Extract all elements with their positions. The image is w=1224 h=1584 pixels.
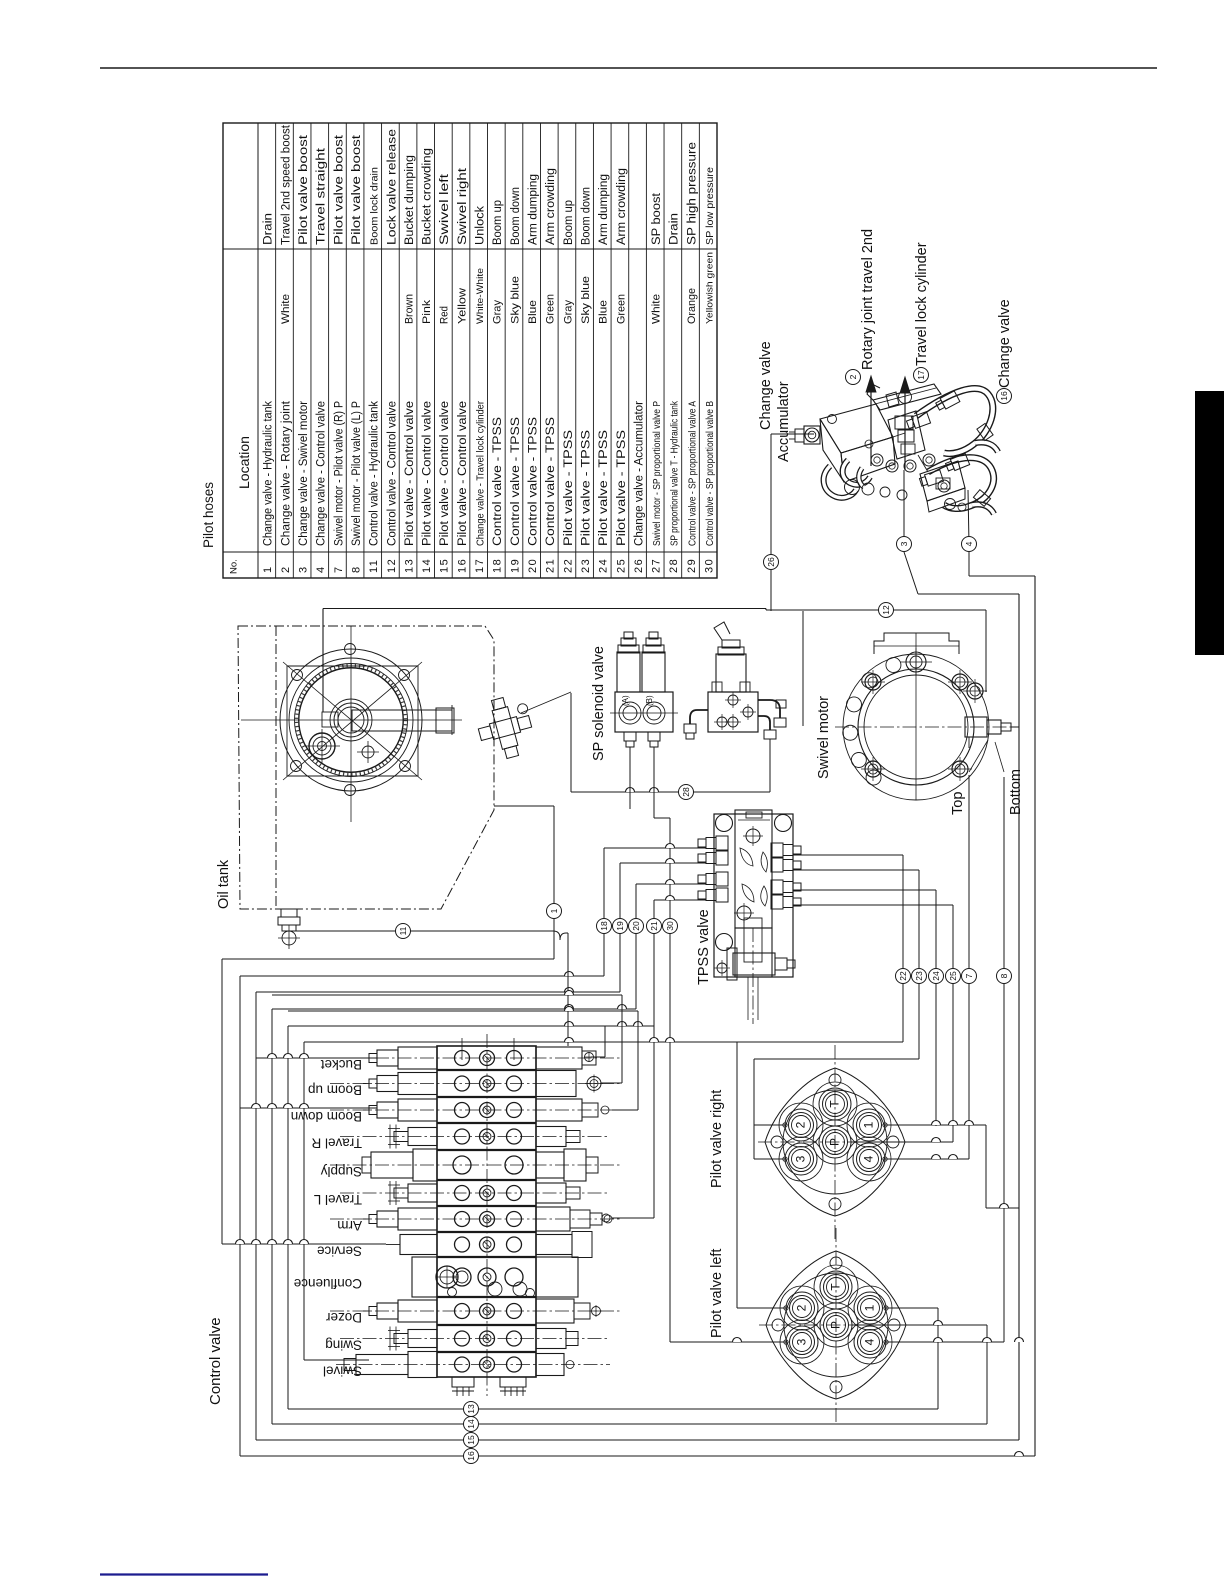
pilot valve left [759,1228,913,1422]
svg-text:Pilot valve - Control valve: Pilot valve - Control valve [455,401,469,546]
hose: pilot right port2 [754,1059,919,1159]
svg-text:Pilot valve left: Pilot valve left [709,1249,725,1338]
svg-text:Red: Red [439,306,451,324]
svg-text:Control valve - TPSS: Control valve - TPSS [526,417,540,546]
svg-text:Pilot valve boost: Pilot valve boost [331,134,345,245]
hose: pilot left port4 [886,1338,1024,1343]
svg-text:Lock valve release: Lock valve release [384,129,398,245]
svg-text:Pink: Pink [421,300,433,324]
svg-text:Orange: Orange [686,288,698,324]
svg-text:3: 3 [794,1155,808,1162]
svg-text:Travel L: Travel L [313,1192,362,1207]
label: Pilot hoses [201,482,216,548]
svg-text:White: White [651,294,663,324]
svg-text:Arm crowding: Arm crowding [614,168,628,245]
svg-text:11: 11 [368,559,380,573]
svg-text:19: 19 [509,558,521,573]
svg-text:Supply: Supply [320,1164,362,1179]
label: SP solenoid valve [591,646,607,761]
svg-text:Pilot valve - TPSS: Pilot valve - TPSS [614,430,628,546]
svg-text:7: 7 [964,973,974,978]
svg-text:Bucket: Bucket [320,1057,362,1072]
svg-text:Change valve: Change valve [997,299,1013,388]
svg-text:Oil tank: Oil tank [216,859,232,909]
svg-text:8: 8 [999,973,1009,978]
label: Rotary joint travel 2nd [846,229,877,385]
svg-text:SP solenoid valve: SP solenoid valve [591,646,607,761]
svg-text:Control valve - TPSS: Control valve - TPSS [543,417,557,546]
svg-text:Arm dumping: Arm dumping [596,174,610,245]
svg-text:1: 1 [549,908,559,913]
svg-text:13: 13 [403,558,415,573]
svg-text:1: 1 [862,1121,876,1128]
svg-text:Top: Top [950,792,966,815]
svg-text:18: 18 [599,921,609,931]
hose: frame line above pilot right [304,1038,903,1309]
label: Top [950,792,966,815]
svg-text:Swing: Swing [325,1338,362,1353]
hose: TPSS left 21 [288,896,706,1027]
svg-text:Rotary joint travel 2nd: Rotary joint travel 2nd [860,229,876,370]
svg-text:Control valve - Control valve: Control valve - Control valve [384,401,398,546]
svg-text:Arm: Arm [337,1218,362,1233]
svg-text:2: 2 [280,567,292,573]
svg-text:Pilot valve - Control valve: Pilot valve - Control valve [420,401,434,546]
svg-text:Sky blue: Sky blue [580,276,592,324]
label: TPSS valve [696,909,712,985]
svg-text:Boom up: Boom up [490,200,504,245]
svg-text:Drain: Drain [667,213,681,245]
hose: TPSS right 24 [793,890,944,1126]
header rule [100,67,1157,69]
svg-text:SP high pressure: SP high pressure [684,142,698,245]
svg-text:Boom lock drain: Boom lock drain [370,167,381,245]
hose: change valve - swivel motor (3) [879,603,987,693]
hose: pilot left P [852,1321,987,1425]
svg-text:SP boost: SP boost [649,192,663,245]
hose: change valve - accumulator (26) [764,434,815,611]
svg-text:28: 28 [681,787,691,797]
svg-text:21: 21 [545,558,557,573]
svg-text:Pilot valve - Control valve: Pilot valve - Control valve [402,401,416,546]
svg-text:8: 8 [350,567,362,573]
svg-text:22: 22 [562,558,574,573]
svg-text:27: 27 [651,558,663,573]
svg-text:17: 17 [916,370,926,380]
label: Travel lock cylinder [914,242,931,382]
svg-text:Change valve: Change valve [758,341,774,430]
svg-text:15: 15 [466,1435,476,1445]
svg-text:Swivel motor - SP proportional: Swivel motor - SP proportional valve P [652,401,663,546]
bottom frame hose 1409 [288,1402,938,1417]
svg-text:Change valve - Hydraulic tank: Change valve - Hydraulic tank [261,400,275,546]
svg-text:11: 11 [398,926,408,935]
svg-text:14: 14 [466,1419,476,1429]
svg-text:Unlock: Unlock [473,205,487,245]
label: Oil tank [216,859,232,909]
svg-text:Change valve - Rotary joint: Change valve - Rotary joint [278,400,292,546]
svg-text:Yellow: Yellow [456,287,468,324]
svg-text:4: 4 [315,567,327,573]
svg-text:Swivel left: Swivel left [437,173,451,245]
cross fitting near tank [472,692,571,764]
pilot valve right [758,1045,912,1239]
svg-text:Boom up: Boom up [308,1083,362,1098]
svg-text:Control valve: Control valve [207,1317,224,1405]
svg-text:Service: Service [317,1244,362,1259]
hose: boom up right U [272,991,622,1084]
svg-text:Confluence: Confluence [294,1276,362,1291]
svg-text:26: 26 [633,558,645,573]
svg-text:Accumulator: Accumulator [776,381,792,462]
hose into control valve: bucket line [256,1054,377,1059]
hose: SP proportional T drain (28) [505,693,770,800]
svg-text:Arm dumping: Arm dumping [526,174,540,245]
svg-text:13: 13 [466,1404,476,1414]
label: Change valve (right) [997,299,1014,403]
svg-text:20: 20 [631,921,641,931]
wire: frame trunk [323,576,1035,1456]
svg-text:26: 26 [766,557,776,567]
svg-text:(B): (B) [645,695,654,706]
svg-text:White-White: White-White [475,268,486,324]
svg-text:Boom down: Boom down [508,187,522,245]
svg-text:Gray: Gray [562,300,574,324]
svg-text:16: 16 [999,391,1009,401]
hose: tank drain line (11) [296,924,568,1047]
svg-text:Pilot valve boost: Pilot valve boost [296,134,310,245]
hose: TPSS left 20 [272,880,706,1010]
svg-text:14: 14 [421,558,433,573]
svg-text:12: 12 [386,558,398,573]
svg-text:Boom down: Boom down [291,1109,362,1124]
hose: SP proportional P (27) [786,611,803,726]
svg-text:1: 1 [863,1304,877,1311]
svg-text:Change valve - Accumulator: Change valve - Accumulator [631,401,645,546]
SP solenoid valve [610,632,678,747]
svg-text:Control valve - TPSS: Control valve - TPSS [490,417,504,546]
swivel motor [835,633,1019,800]
label: Control valve [207,1317,224,1405]
table: pilot hoses list [223,123,717,578]
svg-text:25: 25 [948,971,958,981]
svg-text:Travel R: Travel R [311,1136,362,1151]
svg-text:Arm crowding: Arm crowding [543,168,557,245]
hose: travel lock (17) drop [897,470,1020,594]
svg-text:19: 19 [615,921,625,931]
label: Swivel motor [816,696,832,779]
svg-text:16: 16 [466,1451,476,1461]
svg-text:Brown: Brown [403,294,415,324]
svg-text:28: 28 [668,558,680,573]
SP proportional valve [684,622,786,739]
svg-text:4: 4 [862,1155,876,1162]
svg-text:No.: No. [229,559,240,574]
swivel motor leaders to Top/Bottom [969,740,1004,772]
svg-text:Pilot valve - TPSS: Pilot valve - TPSS [596,430,610,546]
svg-text:Sky blue: Sky blue [509,276,521,324]
hose: solenoid B line (30) [654,747,678,1342]
svg-text:29: 29 [686,558,698,573]
svg-text:Control valve - SP proportiona: Control valve - SP proportional valve B [705,401,716,546]
svg-text:3: 3 [298,567,310,573]
svg-text:Swivel: Swivel [323,1364,362,1379]
bottom frame hose 1424 [272,1417,987,1432]
hose: pilot left port2 [737,1307,786,1309]
control valve section labels [291,1057,362,1379]
control valve left/right attachments [330,1047,620,1378]
svg-text:18: 18 [492,558,504,573]
hose: swivel Top line (7) [962,775,977,1159]
svg-text:Boom up: Boom up [561,200,575,245]
hose: pilot right port4 [885,1155,969,1159]
svg-text:15: 15 [439,558,451,573]
svg-text:Change valve - Swivel motor: Change valve - Swivel motor [296,401,310,546]
svg-text:Yellowish green: Yellowish green [705,252,716,324]
svg-text:Bucket crowding: Bucket crowding [420,148,434,245]
arrow: rotary joint travel 2nd [866,376,876,466]
svg-text:Control valve - Hydraulic tank: Control valve - Hydraulic tank [367,400,381,546]
right edge black tab [1195,391,1224,655]
hose: pilot left port3 [670,1338,786,1343]
svg-text:Bucket dumping: Bucket dumping [402,155,416,245]
svg-text:Green: Green [545,294,557,324]
svg-text:20: 20 [527,558,539,573]
oil tank [238,626,494,909]
label: Bottom [1008,769,1024,815]
svg-text:Boom down: Boom down [578,187,592,245]
hose: boom down right U [288,1007,638,1111]
svg-text:Green: Green [615,294,627,324]
hose into control valve: swivel line [304,1359,369,1361]
svg-text:4: 4 [964,541,974,546]
svg-text:Travel lock cylinder: Travel lock cylinder [914,242,930,366]
svg-text:Change valve - Travel lock cyl: Change valve - Travel lock cylinder [476,400,487,546]
svg-text:Pilot valve - TPSS: Pilot valve - TPSS [578,430,592,546]
hose: TPSS right 23 [793,870,927,1059]
hose: pilot right P [851,1138,953,1143]
hose: TPSS right 25 [793,905,961,1142]
svg-text:3: 3 [795,1338,809,1345]
svg-text:Control valve - TPSS: Control valve - TPSS [508,417,522,546]
hose: swivel Bottom line (8) [997,777,1012,1342]
svg-text:21: 21 [649,921,659,931]
arrow: travel lock cylinder [900,377,910,470]
svg-text:Swivel motor - Pilot valve (R): Swivel motor - Pilot valve (R) P [331,401,345,546]
hose: pilot left port1 [886,1308,938,1409]
svg-text:7: 7 [333,567,345,573]
hose into control valve: service line [222,1240,386,1245]
svg-text:Control valve - SP proportiona: Control valve - SP proportional valve A [687,401,698,546]
svg-text:Pilot valve boost: Pilot valve boost [349,134,363,245]
TPSS valve [698,810,801,1024]
hose: TPSS right 22 [793,855,911,1042]
oil tank drain fitting [278,909,300,949]
svg-text:Pilot hoses: Pilot hoses [201,482,216,548]
hose: bucket right bolt stub [584,1026,605,1062]
svg-text:30: 30 [665,921,675,931]
svg-text:SP low pressure: SP low pressure [705,167,716,245]
svg-text:2: 2 [795,1304,809,1311]
hose into control valve: boom down line [240,1104,377,1109]
hose: tank right (12) to frame [222,806,562,1244]
svg-text:Pilot valve - Control valve: Pilot valve - Control valve [437,401,451,546]
svg-text:White: White [280,294,292,324]
svg-text:Dozer: Dozer [325,1310,362,1325]
svg-text:2: 2 [794,1121,808,1128]
svg-text:24: 24 [598,558,610,573]
hose: TPSS left 19 [256,859,706,992]
svg-text:SP proportional valve T - Hydr: SP proportional valve T - Hydraulic tank [670,400,681,546]
svg-text:22: 22 [898,971,908,981]
svg-text:Bottom: Bottom [1008,769,1024,815]
svg-text:1: 1 [262,567,274,573]
change valve assembly [789,384,998,514]
svg-text:Swivel right: Swivel right [455,167,469,245]
svg-text:30: 30 [704,558,716,573]
control valve body [436,1034,536,1396]
svg-text:17: 17 [474,558,486,573]
hose: pilot right port1 [885,1121,1019,1209]
hose: pilot right port3 [754,1158,785,1160]
svg-text:Blue: Blue [527,300,539,324]
svg-text:Swivel motor: Swivel motor [816,696,832,779]
svg-text:23: 23 [914,971,924,981]
svg-text:3: 3 [899,541,909,546]
hose: solenoid A line (29) [629,747,631,809]
svg-text:(A): (A) [621,695,630,706]
svg-text:Gray: Gray [492,300,504,324]
label: Pilot valve left [709,1249,725,1338]
bottom frame hose 1456 [240,1449,1035,1464]
svg-text:Pilot valve - TPSS: Pilot valve - TPSS [561,430,575,546]
hose: arm right drop [602,1026,654,1222]
footer blue rule [100,1573,268,1575]
hose: TPSS left 18 [240,844,706,977]
svg-text:23: 23 [580,558,592,573]
svg-text:16: 16 [456,558,468,573]
svg-text:TPSS valve: TPSS valve [696,909,712,985]
label: Pilot valve right [709,1090,725,1188]
svg-text:Pilot valve right: Pilot valve right [709,1090,725,1188]
svg-text:Change valve - Control valve: Change valve - Control valve [314,401,328,546]
svg-text:Drain: Drain [261,213,275,245]
svg-text:4: 4 [863,1338,877,1345]
svg-text:2: 2 [848,374,858,379]
svg-text:Blue: Blue [598,300,610,324]
svg-text:Swivel motor - Pilot valve (L): Swivel motor - Pilot valve (L) P [349,401,363,546]
left frame verticals [240,976,304,1456]
svg-text:12: 12 [881,605,891,615]
svg-text:Location: Location [236,436,252,489]
label: Change valve / Accumulator [758,341,792,462]
svg-text:Travel straight: Travel straight [314,147,328,245]
svg-text:24: 24 [931,971,941,981]
bottom frame hose 1440 [256,1433,1019,1448]
hose: change valve drop (4) [962,490,1036,576]
svg-text:Travel 2nd speed boost: Travel 2nd speed boost [278,124,292,245]
svg-text:25: 25 [615,558,627,573]
